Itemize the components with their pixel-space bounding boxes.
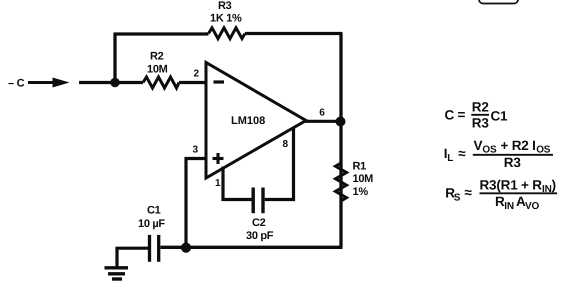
resistor R3 bbox=[209, 28, 246, 39]
svg-text:IN: IN bbox=[504, 201, 514, 212]
wire top rail left of R3 bbox=[114, 32, 209, 35]
svg-text:C1: C1 bbox=[147, 205, 161, 217]
svg-text:C1: C1 bbox=[491, 109, 509, 124]
equation RS = R3(R1+RIN)/(RIN AVO) bbox=[445, 178, 557, 213]
svg-text:=: = bbox=[458, 107, 466, 122]
svg-text:R2: R2 bbox=[472, 100, 489, 115]
svg-text:6: 6 bbox=[319, 108, 325, 119]
svg-text:V: V bbox=[474, 138, 483, 153]
node bottom junction dot bbox=[181, 243, 191, 253]
op-amp U1 LM108 bbox=[206, 63, 306, 179]
svg-text:R3(R1 + R: R3(R1 + R bbox=[480, 178, 543, 193]
wire R2 to op-amp pin 2 bbox=[179, 81, 206, 84]
wire junction up to top rail bbox=[113, 34, 116, 83]
cropped box top-right bbox=[479, 0, 518, 4]
wire C1 to ground bbox=[117, 248, 148, 267]
node junction dot input bbox=[110, 78, 119, 87]
svg-text:OS: OS bbox=[482, 145, 497, 156]
input arrow bbox=[28, 78, 70, 88]
plus input symbol bbox=[213, 153, 224, 164]
wire C2 to pin 8 bbox=[265, 127, 294, 200]
svg-text:C2: C2 bbox=[252, 217, 266, 229]
wire input to R2 bbox=[79, 81, 143, 84]
svg-text:10 µF: 10 µF bbox=[138, 218, 165, 230]
wire pin 1 stub down to C2 bbox=[223, 167, 252, 200]
wire right vertical rail bbox=[339, 34, 342, 247]
wire op-amp output to node bbox=[304, 120, 343, 123]
svg-text:1%: 1% bbox=[353, 186, 369, 198]
equation IL = (VOS + R2 IOS)/R3 bbox=[444, 138, 553, 170]
svg-text:OS: OS bbox=[536, 145, 551, 156]
svg-text:≈: ≈ bbox=[465, 185, 473, 200]
svg-text:1: 1 bbox=[215, 178, 221, 189]
capacitor C2 bbox=[253, 188, 263, 214]
svg-text:S: S bbox=[454, 193, 461, 204]
capacitor C1 bbox=[150, 235, 159, 262]
node output junction dot bbox=[336, 117, 346, 127]
svg-text:R1: R1 bbox=[353, 161, 367, 173]
svg-text:2: 2 bbox=[194, 69, 200, 80]
svg-text:8: 8 bbox=[283, 139, 289, 150]
svg-text:R3: R3 bbox=[472, 116, 490, 131]
svg-text:C: C bbox=[445, 108, 455, 123]
svg-text:3: 3 bbox=[193, 145, 199, 156]
wire pin 3 to bottom rail bbox=[186, 159, 206, 248]
resistor R1 bbox=[336, 163, 347, 201]
svg-text:1K 1%: 1K 1% bbox=[210, 13, 242, 25]
minus input symbol bbox=[214, 80, 225, 83]
resistor R2 bbox=[143, 77, 179, 88]
svg-text:30 pF: 30 pF bbox=[246, 230, 274, 242]
ground bbox=[105, 268, 129, 279]
wire top rail right of R3 bbox=[245, 32, 343, 35]
svg-text:+ R2 I: + R2 I bbox=[501, 138, 536, 153]
equation C = R2/R3 C1 bbox=[445, 100, 509, 131]
svg-text:R3: R3 bbox=[218, 0, 232, 12]
svg-text:R2: R2 bbox=[150, 51, 164, 63]
svg-text:R3: R3 bbox=[504, 155, 522, 170]
svg-text:LM108: LM108 bbox=[231, 115, 265, 127]
svg-text:10M: 10M bbox=[353, 173, 374, 185]
svg-text:VO: VO bbox=[525, 201, 539, 212]
svg-text:L: L bbox=[447, 153, 453, 164]
svg-text:– C: – C bbox=[8, 78, 25, 90]
svg-text:): ) bbox=[552, 178, 556, 193]
svg-text:≈: ≈ bbox=[458, 146, 466, 161]
wire bottom rail bbox=[161, 246, 343, 249]
svg-text:10M: 10M bbox=[147, 64, 168, 76]
